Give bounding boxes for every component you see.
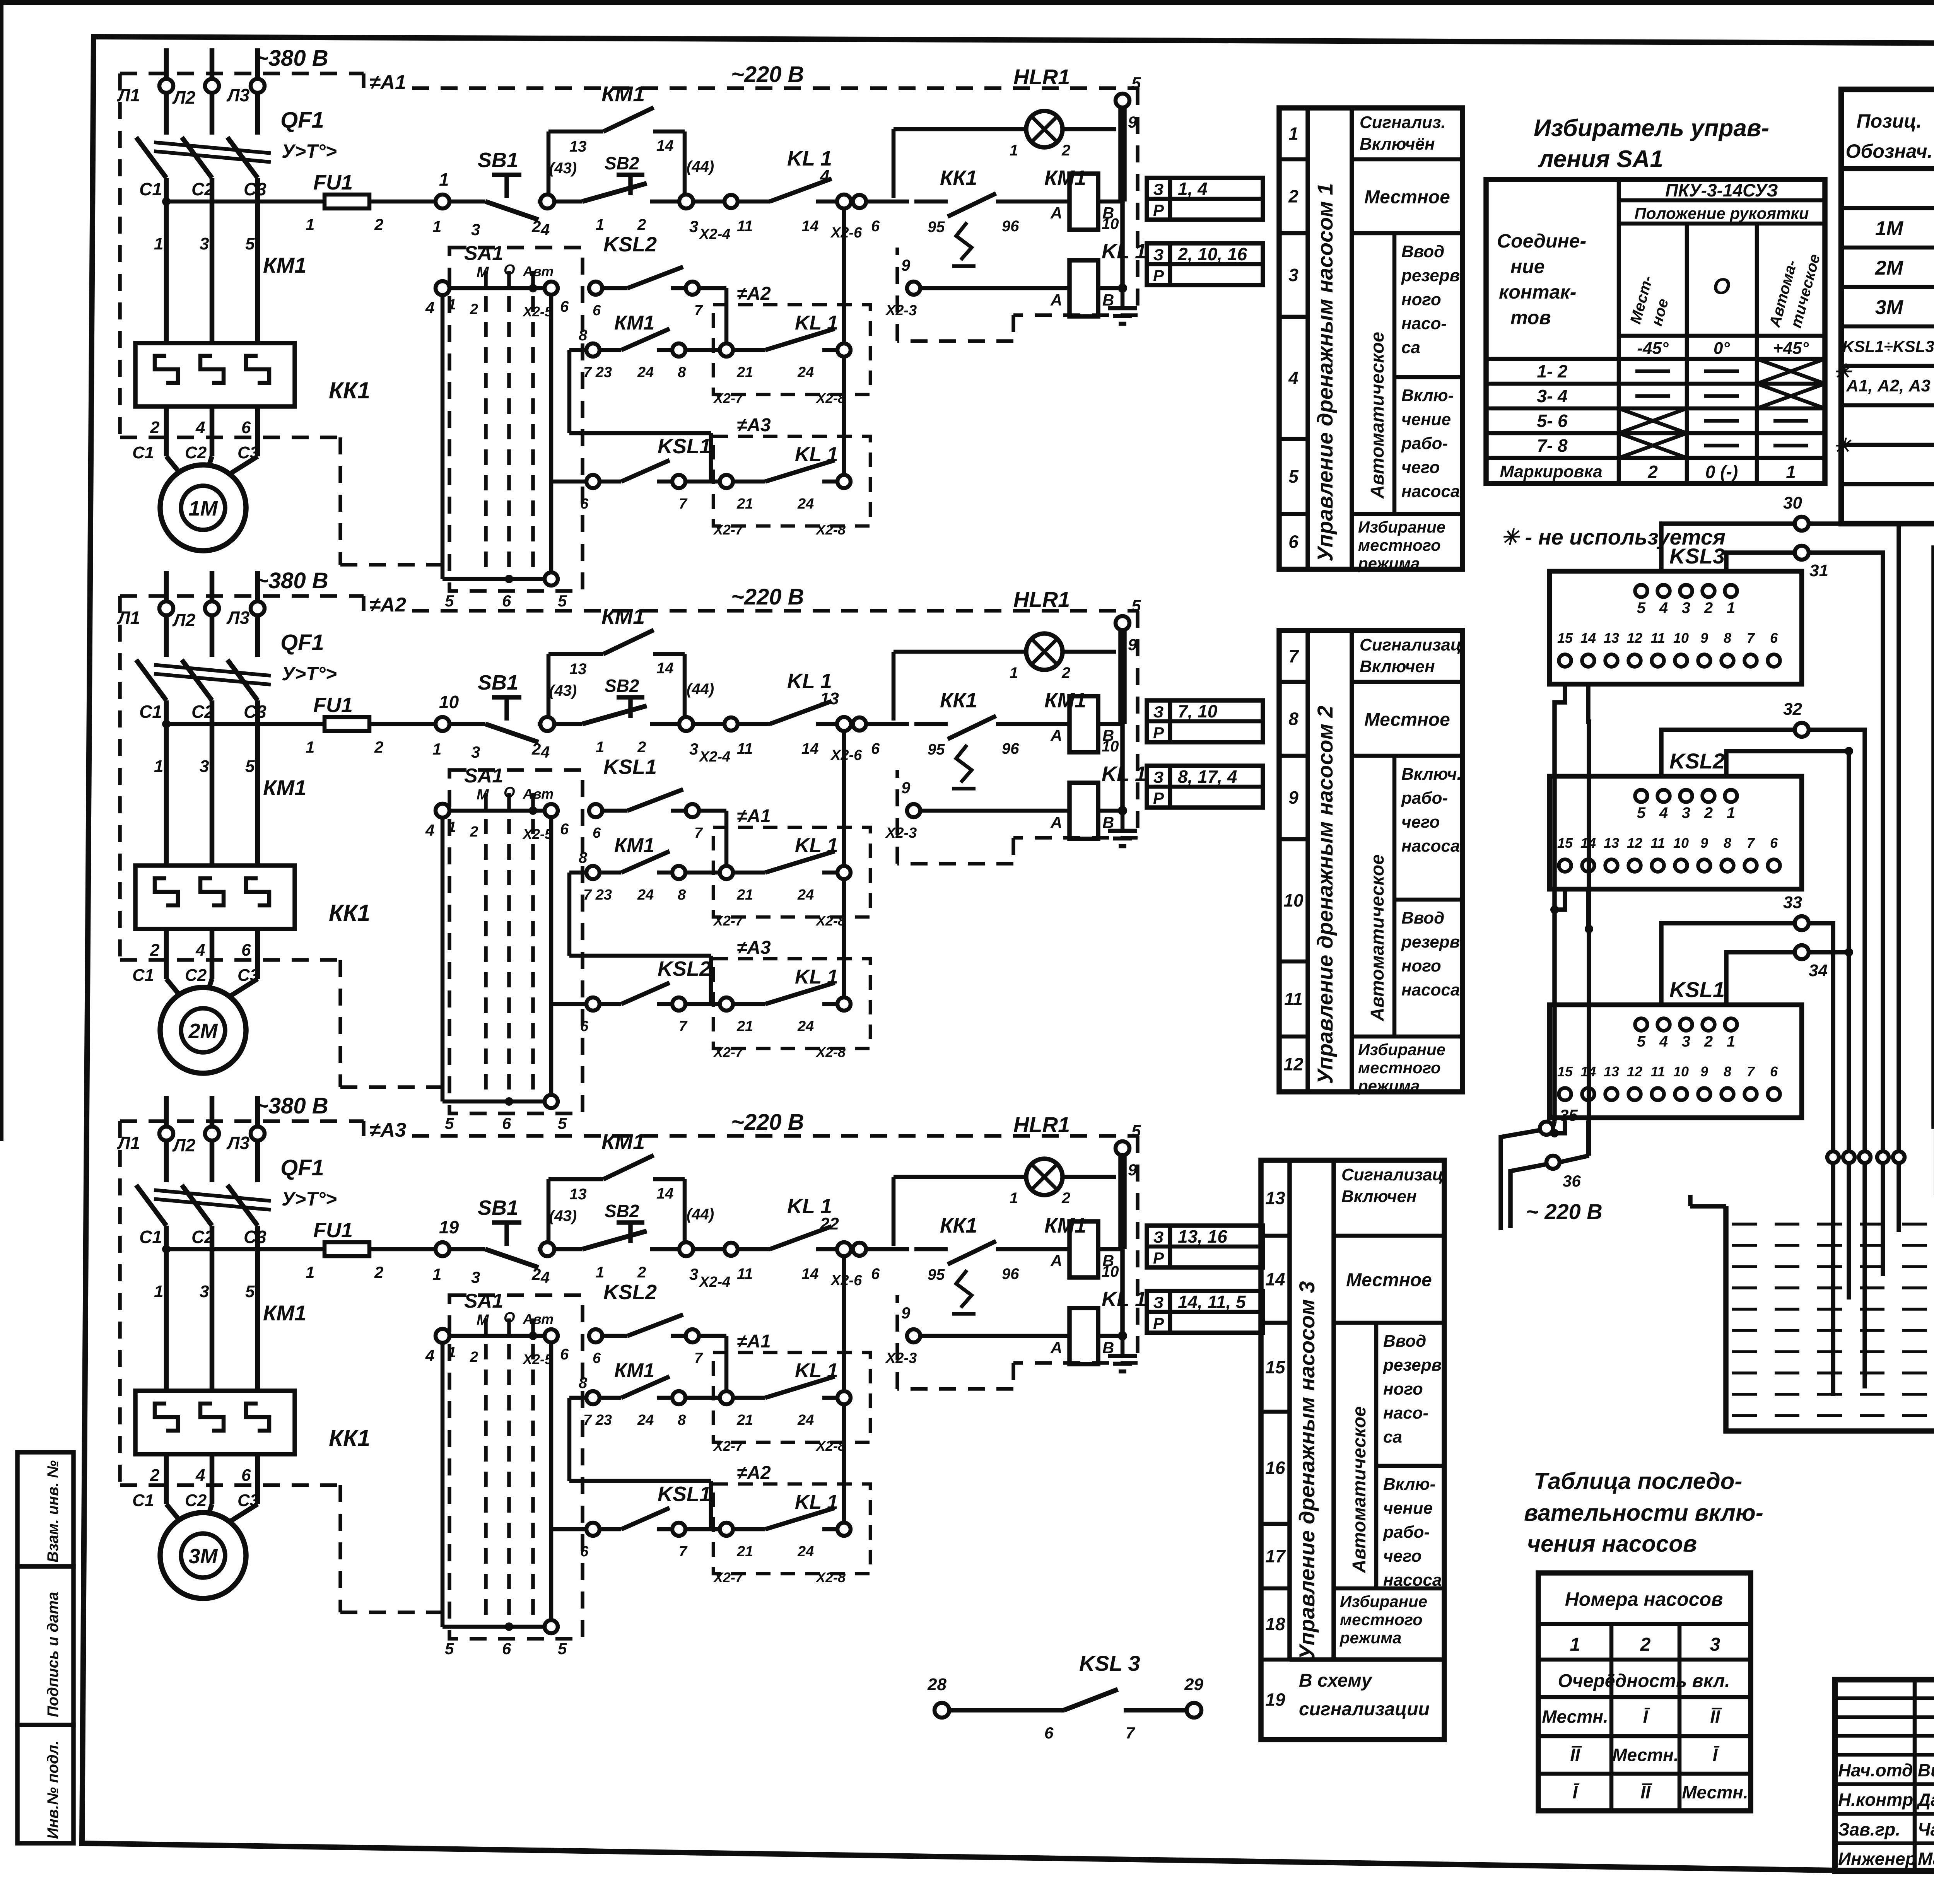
svg-text:КК1: КК1: [940, 1214, 977, 1237]
svg-text:Х2-8: Х2-8: [815, 913, 846, 929]
node 36: [1560, 1156, 1589, 1162]
svg-text:~380 В: ~380 В: [255, 568, 328, 593]
svg-text:21: 21: [736, 496, 753, 512]
svg-text:KSL3: KSL3: [1669, 544, 1725, 568]
svg-text:6: 6: [580, 1544, 589, 1560]
svg-text:15: 15: [1557, 835, 1573, 851]
svg-text:Л2: Л2: [172, 610, 196, 630]
dashed box ≠А2: [713, 1484, 870, 1574]
svg-text:А1, А2, А3: А1, А2, А3: [1846, 376, 1931, 395]
dashed boundary of control box A: [118, 596, 122, 960]
svg-text:QF1: QF1: [280, 1155, 324, 1180]
svg-text:2: 2: [1061, 142, 1070, 159]
svg-text:QF1: QF1: [280, 630, 324, 655]
svg-text:Подпись и дата: Подпись и дата: [44, 1592, 62, 1717]
svg-text:А: А: [1050, 813, 1062, 832]
svg-text:Включен: Включен: [1341, 1187, 1417, 1206]
signal ref table section2 a: [1147, 700, 1263, 742]
svg-text:КМ1: КМ1: [1044, 166, 1086, 190]
svg-text:чения насосов: чения насосов: [1527, 1531, 1697, 1557]
svg-text:~380 В: ~380 В: [255, 46, 328, 71]
svg-text:1: 1: [432, 1265, 441, 1283]
motor leads: [164, 1454, 169, 1504]
svg-text:1: 1: [306, 738, 314, 756]
dashed box ≠А1: [713, 827, 870, 917]
svg-text:6: 6: [871, 218, 880, 235]
svg-text:З: З: [1153, 768, 1164, 786]
svg-text:Вклю-: Вклю-: [1383, 1475, 1435, 1494]
svg-text:KSL1÷KSL3: KSL1÷KSL3: [1842, 337, 1934, 355]
circuit breaker QF1: [136, 660, 166, 700]
svg-text:4: 4: [425, 1346, 434, 1364]
svg-text:10: 10: [1673, 630, 1689, 646]
svg-text:15: 15: [1265, 1357, 1286, 1377]
svg-text:местного: местного: [1358, 1059, 1441, 1077]
svg-text:18: 18: [1265, 1614, 1285, 1634]
fuse FU1: [325, 1242, 369, 1256]
svg-text:4: 4: [195, 941, 205, 960]
svg-text:2М: 2М: [1875, 257, 1904, 279]
svg-text:чение: чение: [1401, 410, 1451, 429]
svg-text:3: 3: [200, 234, 209, 253]
svg-text:КМ1: КМ1: [1044, 1214, 1086, 1237]
svg-text:14: 14: [1580, 630, 1596, 646]
svg-text:7: 7: [1126, 1724, 1135, 1742]
svg-text:11: 11: [737, 740, 753, 757]
svg-text:3: 3: [689, 1265, 698, 1283]
svg-text:5: 5: [1288, 466, 1299, 487]
svg-text:ного: ного: [1401, 956, 1441, 975]
svg-text:Х2-4: Х2-4: [699, 749, 730, 765]
svg-text:≠А2: ≠А2: [737, 283, 771, 304]
svg-text:Нач.отд.: Нач.отд.: [1838, 1760, 1918, 1780]
svg-text:Местное: Местное: [1346, 1270, 1432, 1291]
svg-text:М: М: [477, 264, 489, 280]
svg-text:1: 1: [154, 757, 163, 776]
wire control tap node: [162, 1245, 171, 1253]
svg-text:Л3: Л3: [226, 85, 250, 105]
svg-text:SA1: SA1: [464, 765, 503, 787]
svg-text:9: 9: [901, 779, 911, 797]
svg-text:З: З: [1153, 703, 1164, 721]
svg-text:2: 2: [1704, 804, 1713, 821]
svg-text:Автоматическое: Автоматическое: [1367, 332, 1388, 499]
svg-text:HLR1: HLR1: [1013, 1112, 1070, 1137]
svg-text:ного: ного: [1401, 290, 1441, 309]
svg-text:21: 21: [736, 1018, 753, 1035]
svg-text:3: 3: [200, 1282, 209, 1301]
svg-text:С1: С1: [132, 1491, 154, 1510]
svg-text:3М: 3М: [188, 1545, 218, 1568]
svg-text:6: 6: [580, 1018, 589, 1035]
svg-text:96: 96: [1002, 1265, 1019, 1282]
ground: [1121, 811, 1125, 831]
svg-text:15: 15: [1557, 630, 1573, 646]
svg-text:KSL1: KSL1: [1669, 977, 1725, 1002]
svg-text:2: 2: [1640, 1634, 1651, 1655]
svg-text:15: 15: [1557, 1064, 1573, 1079]
svg-text:SB2: SB2: [605, 1201, 639, 1221]
svg-text:6: 6: [560, 298, 569, 315]
svg-text:1: 1: [1010, 1190, 1018, 1207]
svg-text:контак-: контак-: [1499, 281, 1576, 303]
svg-text:4: 4: [425, 299, 434, 317]
svg-text:5: 5: [445, 592, 454, 610]
svg-text:14: 14: [1265, 1269, 1285, 1289]
svg-text:1, 4: 1, 4: [1178, 179, 1208, 199]
svg-text:FU1: FU1: [313, 693, 353, 717]
bus vertical thick: [1118, 630, 1127, 724]
svg-text:С2: С2: [191, 702, 214, 722]
svg-text:10: 10: [439, 692, 459, 712]
svg-text:8: 8: [579, 327, 588, 344]
svg-text:2: 2: [374, 738, 383, 756]
node 23 bus top: [1116, 1141, 1129, 1155]
svg-text:21: 21: [736, 1412, 753, 1428]
svg-text:(44): (44): [687, 158, 714, 175]
dashed box ≠А3: [713, 436, 870, 526]
svg-text:Х2-8: Х2-8: [815, 1569, 846, 1585]
svg-text:24: 24: [797, 1544, 814, 1560]
svg-text:≠А2: ≠А2: [737, 1463, 771, 1483]
svg-text:КМ1: КМ1: [614, 312, 654, 334]
svg-text:34: 34: [1809, 961, 1828, 980]
svg-text:С1: С1: [132, 443, 154, 462]
svg-text:Сигнализ.: Сигнализ.: [1360, 113, 1446, 132]
level sensor block KSL3: [1550, 571, 1802, 684]
svg-text:1: 1: [439, 169, 449, 190]
svg-text:KSL1: KSL1: [658, 435, 711, 458]
svg-text:4: 4: [195, 418, 205, 437]
svg-text:7 23: 7 23: [583, 887, 612, 903]
svg-text:4: 4: [540, 743, 550, 761]
svg-text:13, 16: 13, 16: [1178, 1226, 1227, 1247]
svg-text:2, 10, 16: 2, 10, 16: [1177, 244, 1247, 264]
svg-text:рабо-: рабо-: [1401, 434, 1448, 453]
svg-text:4: 4: [195, 1466, 205, 1485]
svg-text:5: 5: [1637, 599, 1646, 616]
svg-text:Вишневский: Вишневский: [1918, 1760, 1934, 1780]
svg-text:Положение рукоятки: Положение рукоятки: [1635, 204, 1809, 222]
node 1: [436, 195, 449, 208]
svg-text:вательности вклю-: вательности вклю-: [1524, 1500, 1763, 1526]
svg-text:FU1: FU1: [313, 1219, 353, 1242]
svg-text:1: 1: [448, 819, 456, 835]
node 35: [1553, 1122, 1555, 1128]
svg-text:7: 7: [694, 302, 703, 319]
svg-text:2: 2: [470, 824, 478, 840]
svg-text:2: 2: [531, 740, 541, 758]
svg-text:7, 10: 7, 10: [1178, 701, 1218, 721]
svg-text:13: 13: [1604, 835, 1619, 851]
svg-text:О: О: [504, 784, 515, 801]
bus vertical thick: [1118, 1155, 1127, 1249]
svg-text:О: О: [1713, 274, 1730, 299]
svg-text:Х2-6: Х2-6: [830, 747, 862, 763]
svg-text:1: 1: [1727, 804, 1735, 821]
svg-text:KSL2: KSL2: [603, 233, 657, 256]
node 22 rail: [842, 1256, 846, 1529]
svg-text:28: 28: [927, 1675, 946, 1694]
svg-text:Инв.№ подл.: Инв.№ подл.: [44, 1740, 62, 1839]
svg-text:7: 7: [1747, 630, 1755, 646]
svg-text:режима: режима: [1358, 554, 1420, 572]
svg-text:Х2-8: Х2-8: [815, 1044, 846, 1060]
svg-text:2: 2: [1647, 462, 1658, 482]
svg-text:ПКУ-3-14СУЗ: ПКУ-3-14СУЗ: [1665, 180, 1778, 200]
svg-text:КК1: КК1: [329, 900, 370, 926]
wire loop path: [569, 348, 587, 352]
svg-text:24: 24: [637, 887, 654, 903]
svg-text:са: са: [1401, 338, 1420, 357]
svg-text:2: 2: [150, 941, 160, 960]
svg-text:1: 1: [596, 739, 604, 756]
svg-text:6: 6: [241, 418, 251, 437]
svg-text:14: 14: [656, 1185, 674, 1202]
svg-text:С1: С1: [139, 1227, 162, 1247]
svg-text:14: 14: [656, 660, 674, 677]
svg-text:3- 4: 3- 4: [1537, 386, 1567, 406]
svg-text:Таблица последо-: Таблица последо-: [1534, 1468, 1742, 1494]
svg-text:24: 24: [637, 364, 654, 381]
svg-text:местного: местного: [1340, 1610, 1423, 1629]
svg-text:КМ1: КМ1: [614, 1359, 654, 1382]
svg-text:32: 32: [1783, 700, 1802, 719]
fuse FU1: [325, 195, 369, 208]
svg-text:24: 24: [637, 1412, 654, 1428]
motor 2М: [160, 987, 246, 1073]
wire loop path: [569, 871, 587, 875]
terminal X2-3: [907, 1329, 920, 1342]
svg-text:са: са: [1383, 1428, 1402, 1446]
svg-text:30: 30: [1783, 494, 1802, 512]
svg-text:3М: 3М: [1875, 296, 1904, 319]
svg-text:8: 8: [678, 887, 686, 903]
svg-text:С3: С3: [244, 702, 267, 722]
svg-text:Обознач.: Обознач.: [1845, 140, 1932, 162]
self-hold contact KM1 with button SB2: [547, 654, 551, 717]
svg-text:А: А: [1050, 204, 1062, 222]
svg-text:14: 14: [801, 740, 819, 757]
svg-text:33: 33: [1783, 893, 1802, 912]
svg-text:-45°: -45°: [1637, 339, 1669, 358]
svg-text:6: 6: [1288, 532, 1298, 552]
thermal contact KK1 break: [914, 1247, 948, 1252]
svg-text:резерв-: резерв-: [1401, 266, 1466, 285]
svg-text:Местное: Местное: [1364, 710, 1450, 730]
svg-text:SB1: SB1: [478, 149, 518, 172]
svg-text:насо-: насо-: [1401, 314, 1447, 333]
components table: [1841, 89, 1934, 524]
svg-text:А: А: [1050, 1252, 1062, 1270]
svg-text:7: 7: [1747, 1064, 1755, 1079]
thermal contact KK1 break: [914, 200, 948, 204]
svg-text:(43): (43): [549, 1207, 577, 1224]
phase lines L1 L2 L3: [164, 1096, 169, 1127]
svg-text:1: 1: [432, 740, 441, 758]
svg-text:11: 11: [737, 1265, 753, 1282]
svg-text:9: 9: [1288, 787, 1298, 808]
selector switch SA1 dashed columns: [449, 248, 583, 591]
svg-text:2: 2: [470, 301, 478, 318]
svg-text:21: 21: [736, 887, 753, 903]
terminal X2-6: [853, 195, 866, 208]
svg-text:QF1: QF1: [280, 108, 324, 133]
svg-text:1: 1: [306, 215, 314, 234]
svg-text:7: 7: [679, 1018, 688, 1035]
svg-text:Р: Р: [1153, 201, 1164, 219]
svg-text:режима: режима: [1358, 1077, 1420, 1095]
svg-text:М: М: [477, 1312, 489, 1328]
wire SA1 row: [436, 1329, 449, 1343]
svg-text:12: 12: [1627, 630, 1642, 646]
svg-text:Х2-6: Х2-6: [830, 225, 862, 241]
svg-text:8: 8: [579, 1375, 588, 1392]
svg-text:С3: С3: [244, 1227, 267, 1247]
svg-text:6: 6: [1770, 835, 1778, 851]
svg-text:≠А2: ≠А2: [369, 594, 406, 616]
svg-text:19: 19: [1265, 1690, 1285, 1710]
node 11: [540, 717, 554, 731]
svg-text:17: 17: [1265, 1546, 1286, 1566]
svg-text:8: 8: [1288, 709, 1298, 729]
terminal X2-3: [907, 804, 920, 817]
svg-text:тов: тов: [1510, 307, 1551, 328]
svg-text:~220 В: ~220 В: [731, 584, 804, 610]
svg-text:Х2-7: Х2-7: [713, 1044, 744, 1060]
node 20: [540, 1242, 554, 1256]
svg-text:4: 4: [540, 1268, 550, 1286]
svg-text:КМ1: КМ1: [601, 1129, 645, 1154]
ground: [1121, 1336, 1125, 1356]
svg-text:Р: Р: [1153, 724, 1164, 742]
svg-text:3: 3: [471, 220, 480, 239]
svg-text:SB1: SB1: [478, 1196, 518, 1219]
svg-text:31: 31: [1809, 561, 1828, 580]
thermal overload relay KK1: [135, 343, 295, 406]
svg-text:7 23: 7 23: [583, 1412, 612, 1428]
svg-text:резерв-: резерв-: [1383, 1356, 1447, 1375]
svg-text:1: 1: [1786, 462, 1796, 482]
svg-text:3: 3: [689, 217, 698, 236]
svg-text:24: 24: [797, 364, 814, 381]
svg-text:Вклю-: Вклю-: [1401, 386, 1454, 405]
svg-text:9: 9: [1700, 1064, 1708, 1079]
svg-text:35: 35: [1560, 1106, 1578, 1124]
probe wires into tank: [1827, 1151, 1839, 1163]
function table pump 1: [1279, 108, 1462, 569]
level sensor block KSL2: [1550, 776, 1802, 889]
svg-text:Л3: Л3: [226, 608, 250, 628]
selector switch SA1 dashed columns: [449, 1295, 583, 1639]
svg-text:SB2: SB2: [605, 153, 639, 173]
level sensor block KSL1: [1550, 1005, 1802, 1118]
svg-text:8: 8: [678, 1412, 686, 1428]
svg-text:С3: С3: [244, 179, 267, 199]
svg-text:10: 10: [1673, 835, 1689, 851]
svg-text:У>Т°>: У>Т°>: [282, 1188, 337, 1210]
svg-text:6: 6: [560, 1346, 569, 1363]
wire control tap node: [162, 197, 171, 206]
wire main control line: [166, 722, 325, 726]
svg-text:3: 3: [1682, 599, 1690, 616]
node 13 rail: [842, 731, 846, 1004]
wire loop path: [569, 1396, 587, 1400]
svg-text:95: 95: [928, 741, 945, 758]
svg-text:4: 4: [425, 821, 434, 839]
svg-text:Очерёдность вкл.: Очерёдность вкл.: [1558, 1671, 1730, 1691]
svg-text:2: 2: [531, 217, 541, 236]
motor leads: [164, 929, 169, 979]
svg-text:Избирание: Избирание: [1358, 1040, 1445, 1059]
svg-text:12: 12: [1627, 835, 1642, 851]
function table pump 2: [1279, 630, 1462, 1092]
phase lines L1 L2 L3: [164, 48, 169, 79]
svg-text:6: 6: [502, 1639, 511, 1658]
margin box podpis i data: [17, 1566, 73, 1725]
svg-text:10: 10: [1102, 738, 1119, 755]
svg-text:21: 21: [736, 364, 753, 381]
pump order table: [1538, 1573, 1751, 1811]
svg-text:резерв-: резерв-: [1401, 932, 1466, 951]
svg-text:рабо-: рабо-: [1401, 789, 1448, 808]
svg-text:6: 6: [593, 1350, 601, 1366]
svg-text:5- 6: 5- 6: [1537, 411, 1568, 431]
terminal X2-6: [853, 1243, 866, 1256]
svg-text:У>Т°>: У>Т°>: [282, 663, 337, 685]
svg-text:7: 7: [1747, 835, 1755, 851]
svg-text:КК1: КК1: [329, 1425, 370, 1451]
svg-text:2: 2: [637, 739, 646, 756]
margin box inv n podl: [17, 1725, 73, 1843]
svg-text:3: 3: [471, 1268, 480, 1286]
svg-text:KSL2: KSL2: [658, 957, 711, 980]
svg-text:2: 2: [1061, 664, 1070, 681]
wires KSL blocks left rails: [1555, 684, 1565, 1122]
node 4 rail: [842, 208, 846, 482]
svg-text:9: 9: [901, 256, 911, 274]
svg-text:24: 24: [797, 887, 814, 903]
svg-text:1М: 1М: [1875, 217, 1904, 240]
svg-text:4: 4: [540, 220, 550, 239]
svg-text:Авт: Авт: [523, 1311, 554, 1327]
svg-text:2: 2: [150, 418, 160, 437]
wire X2-5 rail: [549, 295, 554, 573]
svg-text:14: 14: [801, 1265, 819, 1282]
svg-text:Л2: Л2: [172, 87, 196, 108]
svg-text:2М: 2М: [188, 1019, 218, 1043]
svg-text:режима: режима: [1339, 1629, 1401, 1647]
thermal overload relay KK1: [135, 866, 295, 929]
svg-text:5: 5: [558, 1114, 567, 1132]
svg-text:рабо-: рабо-: [1383, 1523, 1430, 1542]
svg-text:С1: С1: [139, 702, 162, 722]
svg-text:(43): (43): [549, 682, 577, 699]
svg-text:2: 2: [1704, 1033, 1713, 1050]
motor 1М: [160, 465, 246, 551]
svg-text:Л3: Л3: [226, 1133, 250, 1153]
node 10: [436, 717, 449, 731]
svg-text:КМ1: КМ1: [263, 253, 306, 277]
svg-text:≠А1: ≠А1: [737, 1331, 771, 1352]
dashed box ≠А1: [713, 1352, 870, 1442]
svg-text:А: А: [1050, 726, 1062, 745]
svg-text:Х2-3: Х2-3: [885, 302, 917, 319]
svg-text:8: 8: [1724, 630, 1731, 646]
svg-text:5: 5: [245, 1282, 255, 1301]
svg-text:3: 3: [689, 740, 698, 758]
svg-text:9: 9: [1700, 835, 1708, 851]
